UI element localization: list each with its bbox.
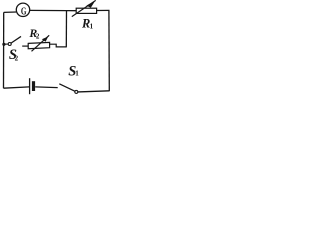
R2 arrow diagonal xyxy=(32,35,50,51)
wire top-left segment xyxy=(4,11,17,13)
rheostat R2 box xyxy=(28,42,49,48)
galvanometer U1 circle xyxy=(16,3,29,16)
R1 arrow diagonal xyxy=(72,0,96,16)
svg-text:1: 1 xyxy=(75,70,79,78)
node junction dot on left wire xyxy=(2,43,5,46)
battery BT1 short thick plate xyxy=(32,81,35,91)
wire bottom-right to S1 xyxy=(78,91,109,92)
switch S1 lever xyxy=(59,84,75,91)
svg-text:1: 1 xyxy=(90,23,94,31)
svg-text:G: G xyxy=(21,7,27,18)
svg-text:2: 2 xyxy=(36,32,40,40)
wire left side xyxy=(3,12,5,88)
switch S2 lever xyxy=(11,36,21,43)
wire top junction to R1 xyxy=(67,10,76,12)
R1 arrowhead xyxy=(86,1,95,8)
switch S2 pivot circle xyxy=(8,43,11,46)
battery BT1 long plate xyxy=(29,78,31,94)
wire S1 to battery xyxy=(35,86,58,89)
R2 arrowhead xyxy=(42,37,48,42)
svg-text:2: 2 xyxy=(15,54,19,62)
wire right side xyxy=(108,10,110,91)
wire branch vertical up to top wire xyxy=(65,11,67,48)
wire battery to bottom-left corner xyxy=(4,87,30,88)
wire G to top junction xyxy=(30,9,67,11)
wire R2 zigzag to branch vertical xyxy=(50,44,67,47)
wire junction to S2 xyxy=(5,43,9,45)
wire S2 to R2 xyxy=(22,45,28,47)
resistor R1 box xyxy=(76,8,96,13)
wire R1 to top-right corner xyxy=(97,9,110,11)
switch S1 contact circle xyxy=(75,90,78,93)
